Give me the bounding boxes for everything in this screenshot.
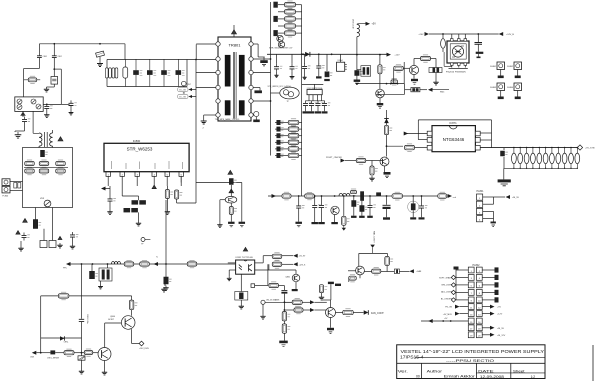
wire	[456, 276, 468, 278]
wire	[387, 145, 404, 147]
label BC817	[108, 319, 114, 321]
connector arrow	[272, 194, 277, 198]
svg-text:PL802: PL802	[473, 264, 481, 267]
wire	[91, 264, 93, 271]
capacitor C834	[325, 72, 333, 77]
wire	[124, 44, 126, 60]
wire	[253, 87, 260, 89]
wire	[376, 93, 405, 95]
transistor Q803	[277, 35, 283, 41]
title section	[446, 358, 494, 363]
resistor R888	[562, 147, 567, 169]
diode D811	[305, 52, 310, 57]
wire	[480, 139, 491, 141]
resistor R807	[56, 168, 66, 175]
svg-text:Sheet: Sheet	[513, 369, 525, 373]
resistor R835	[288, 152, 299, 160]
ground	[97, 61, 103, 67]
resistor R861	[140, 260, 150, 267]
net stub GN	[178, 94, 192, 98]
wire	[196, 87, 216, 89]
wire	[40, 296, 42, 353]
wire	[121, 176, 123, 186]
capacitor C835	[277, 153, 284, 157]
resistor R876	[294, 306, 303, 313]
IC800 pin 3	[135, 172, 139, 176]
wire	[241, 183, 243, 222]
spark gap SG803	[490, 83, 504, 91]
capacitor C855 polarized	[383, 196, 391, 217]
label PL802	[473, 264, 481, 267]
connector arrow	[293, 262, 298, 266]
ground	[383, 217, 390, 219]
svg-text:BC817: BC817	[108, 319, 114, 321]
label BRI_LIGHT	[442, 285, 453, 287]
node	[318, 53, 320, 55]
wire	[276, 72, 278, 74]
capacitor C815	[133, 59, 142, 87]
node	[343, 195, 345, 197]
node	[81, 263, 83, 265]
wire	[100, 281, 102, 285]
resistor R842	[411, 88, 420, 92]
svg-text:CRKL: CRKL	[64, 342, 69, 344]
wire	[379, 74, 381, 90]
resistor R877	[319, 285, 327, 293]
PL801 pin 3	[477, 208, 483, 214]
wire	[262, 304, 264, 314]
wire	[283, 333, 285, 340]
wire	[298, 211, 300, 222]
resistor R810	[132, 200, 146, 204]
inductor L802	[339, 193, 350, 196]
label BL_ON/OFF	[441, 299, 453, 301]
wire	[253, 72, 271, 74]
wire	[263, 255, 272, 257]
wire	[255, 285, 269, 287]
wire	[258, 56, 265, 58]
transformer primary winding	[225, 55, 231, 87]
wire	[282, 263, 293, 265]
wire	[321, 196, 323, 203]
resistor R821	[285, 8, 296, 16]
FSQ510 pin	[451, 39, 454, 42]
capacitor C866	[235, 292, 248, 301]
IC803 pin	[321, 95, 323, 101]
wire	[82, 352, 84, 354]
wire	[131, 329, 133, 343]
ground	[57, 243, 62, 248]
capacitor C833	[316, 63, 324, 71]
capacitor C851	[360, 191, 364, 201]
connector arrow	[101, 187, 106, 191]
wire	[371, 161, 373, 167]
svg-text:STR_W6253_STBY_5V: STR_W6253_STBY_5V	[269, 48, 293, 50]
wire	[164, 284, 166, 286]
wire	[61, 103, 69, 105]
wire	[433, 89, 450, 91]
svg-text:L804 10uH: L804 10uH	[352, 19, 354, 29]
svg-text:FSGM300N: FSGM300N	[455, 72, 466, 74]
ground	[274, 74, 278, 78]
svg-text:STR_W6253: STR_W6253	[127, 147, 153, 152]
ground	[262, 64, 266, 66]
wire	[330, 284, 332, 300]
svg-text:R845: R845	[440, 92, 444, 94]
svg-text:IC803 KA78R33GA: IC803 KA78R33GA	[307, 87, 323, 90]
wire	[177, 202, 196, 204]
connector diamond	[451, 298, 455, 302]
wire	[47, 86, 55, 88]
wire	[81, 322, 83, 356]
wire	[41, 352, 51, 354]
wire	[420, 89, 427, 91]
wire	[384, 166, 386, 172]
wire	[228, 262, 236, 264]
resistor R878	[343, 309, 354, 317]
wire	[10, 190, 23, 192]
IC871 pin	[427, 145, 432, 150]
svg-text:12-09-2008: 12-09-2008	[480, 375, 504, 379]
resistor R831	[288, 125, 299, 133]
resistor R881	[518, 147, 523, 169]
wire mid bus	[356, 83, 405, 85]
wire	[343, 196, 345, 216]
connector +5V_STB	[577, 145, 582, 150]
ground	[240, 225, 244, 227]
resistor R864	[272, 261, 282, 269]
wire	[23, 69, 25, 97]
wire	[366, 160, 372, 162]
wire	[480, 132, 491, 134]
wire	[271, 92, 280, 94]
capacitor C864	[79, 319, 84, 321]
wire	[483, 196, 494, 198]
node	[53, 68, 55, 70]
wire	[324, 109, 326, 112]
wire	[318, 54, 320, 63]
diode D872	[384, 119, 389, 124]
node	[107, 263, 109, 265]
diode D851	[394, 269, 399, 274]
wire	[54, 68, 61, 70]
wire	[482, 334, 490, 336]
wire	[357, 23, 366, 26]
warning mark	[16, 231, 20, 235]
wire	[279, 285, 285, 287]
capacitor C817	[161, 59, 170, 87]
ground	[319, 295, 324, 300]
ground	[136, 221, 141, 226]
node	[386, 195, 388, 197]
wire	[55, 352, 64, 354]
IC871 pin	[475, 138, 480, 143]
wire	[105, 322, 122, 324]
ground	[290, 75, 295, 79]
capacitor C854	[368, 203, 376, 211]
diode D861	[50, 350, 55, 354]
connector +5V arrow	[366, 22, 377, 26]
wire	[504, 167, 578, 169]
label PS_ON	[445, 307, 452, 309]
wire	[253, 100, 271, 102]
wire	[315, 309, 327, 311]
wire	[353, 312, 363, 314]
transformer pin	[216, 113, 220, 117]
capacitor C818	[176, 59, 185, 87]
label +M_5V	[497, 328, 505, 330]
ground	[495, 267, 499, 272]
connector arrow	[293, 254, 298, 258]
wire	[229, 269, 235, 271]
wire	[302, 83, 324, 85]
wire	[482, 276, 494, 278]
label FAN_CONT	[371, 312, 384, 315]
wire	[195, 183, 197, 204]
wire 5VSTB bus	[480, 147, 578, 149]
PL802 pin R1	[476, 267, 482, 273]
resistor R802	[25, 160, 35, 167]
capacitor C812	[123, 59, 128, 87]
wire	[52, 208, 54, 241]
node	[386, 145, 388, 147]
wire HV- rail	[107, 86, 187, 88]
wire antenna	[233, 25, 235, 31]
FSQ510 pin	[464, 63, 467, 66]
connector arrow	[310, 308, 315, 312]
svg-text:SG801: SG801	[490, 66, 496, 68]
wire	[230, 215, 232, 222]
diode D801	[17, 99, 22, 104]
wire	[166, 176, 168, 186]
label Sheet	[513, 369, 525, 373]
svg-text:+5V: +5V	[372, 23, 377, 26]
wire	[138, 196, 140, 200]
node	[92, 263, 94, 265]
capacitor C843 polarized	[476, 52, 484, 58]
label +5V_STB	[585, 148, 595, 150]
resistor R811	[165, 190, 173, 199]
wire	[166, 186, 168, 190]
IC871 pin	[475, 131, 480, 136]
label +5V_MCU	[443, 314, 453, 316]
svg-text:IC831 TLP721GB: IC831 TLP721GB	[235, 257, 253, 259]
wire	[180, 176, 182, 182]
wire	[357, 69, 361, 71]
ground	[385, 176, 389, 178]
wire page border	[592, 345, 594, 381]
optocoupler IC831 body	[236, 260, 255, 274]
label	[139, 348, 149, 350]
resistor R850	[282, 192, 291, 200]
diode D804	[36, 104, 41, 109]
wire	[464, 34, 466, 39]
wire	[104, 188, 111, 190]
ground PL802 top	[454, 267, 459, 270]
resistor R854	[342, 216, 350, 225]
ground	[98, 285, 103, 289]
wire	[255, 262, 264, 264]
ground	[329, 332, 333, 334]
wire	[107, 176, 109, 186]
resistor R813	[124, 208, 138, 212]
PL802 pin R7	[476, 311, 482, 317]
PL802 pin R4	[476, 290, 482, 296]
node	[302, 53, 304, 55]
label KA78R33	[307, 87, 323, 90]
svg-text:PL801: PL801	[477, 190, 485, 193]
wire	[275, 148, 288, 150]
capacitor C838	[274, 64, 282, 72]
svg-text:+24V_B: +24V_B	[506, 34, 514, 36]
wire	[494, 196, 506, 198]
ground	[498, 76, 504, 79]
wire	[455, 270, 457, 300]
wire	[283, 321, 285, 324]
label POWT_ON/OFF	[326, 157, 343, 159]
capacitor C871	[501, 151, 508, 156]
connector arrow	[455, 312, 460, 316]
transformer TR801 body	[218, 37, 251, 121]
op-amp U FSQ510 body	[447, 41, 469, 63]
wire	[299, 128, 302, 130]
resistor R851	[305, 192, 315, 199]
wire	[53, 84, 55, 87]
wire	[230, 185, 232, 196]
node	[195, 59, 197, 61]
label STR_W6253	[127, 147, 153, 152]
IC871 pin	[427, 138, 432, 143]
ground	[15, 132, 22, 138]
wire	[456, 299, 468, 301]
ground	[328, 282, 334, 284]
transformer pin	[216, 85, 220, 89]
svg-text:+5V_ST: +5V_ST	[299, 256, 307, 258]
label +M_12V	[497, 335, 506, 337]
wire	[493, 197, 495, 204]
wire	[418, 119, 491, 121]
wire	[20, 241, 22, 246]
ground	[107, 210, 112, 215]
connector +12V out arrow	[448, 194, 453, 198]
resistor R879	[269, 282, 279, 289]
wire	[369, 196, 371, 203]
capacitor C803	[52, 54, 62, 60]
node	[356, 54, 358, 56]
ground	[201, 119, 207, 125]
wire	[296, 25, 302, 27]
connector AC N	[2, 186, 10, 193]
PL802 pin R5	[476, 297, 482, 303]
PL802 pin R10	[476, 332, 482, 338]
wire AC top bus	[39, 43, 125, 45]
svg-text:Q831: Q831	[285, 277, 290, 279]
wire	[482, 299, 494, 301]
wire	[442, 48, 444, 52]
ground	[181, 88, 186, 93]
connector JP861	[251, 284, 255, 288]
wire	[106, 60, 108, 87]
capacitor C833	[277, 140, 284, 144]
label CRKL_SENSE	[47, 358, 60, 360]
label STR_W6253_VCC_LATCH	[268, 85, 292, 88]
connector inline arrow	[154, 262, 159, 266]
wire	[358, 253, 360, 266]
svg-text:IC871: IC871	[449, 121, 457, 125]
svg-text:ADJ_LIGHT: ADJ_LIGHT	[441, 290, 453, 293]
capacitor C857	[419, 203, 427, 211]
resistor R830	[288, 119, 299, 127]
resistor R822	[285, 15, 296, 23]
resistor R855	[385, 256, 393, 265]
IC800 pin 1	[106, 172, 110, 176]
wire	[315, 301, 327, 303]
connector diamond	[451, 283, 455, 287]
resistor R857	[349, 275, 357, 282]
wire	[192, 96, 196, 98]
capacitor C804	[51, 77, 58, 85]
capacitor C820	[108, 196, 116, 204]
wire	[451, 34, 453, 39]
label Ver	[398, 369, 408, 373]
IC803 pin	[312, 95, 314, 101]
transformer aux winding right	[239, 100, 245, 115]
ground	[228, 222, 235, 224]
wire	[219, 200, 221, 223]
capacitor	[309, 101, 317, 109]
wire	[257, 44, 259, 57]
wire	[275, 122, 288, 124]
node	[298, 195, 300, 197]
connector arrow	[490, 326, 495, 330]
transistor Q864	[326, 308, 336, 318]
wire	[253, 58, 271, 60]
resistor R883	[531, 147, 536, 169]
bridge rectifier BR801	[15, 97, 43, 112]
wire	[240, 274, 242, 291]
svg-text:CN8: CN8	[30, 357, 34, 359]
ground	[44, 87, 49, 92]
connector POWT	[341, 159, 346, 163]
IC800 pin name labels	[112, 161, 183, 169]
wire	[399, 271, 409, 273]
svg-text:PS_ON: PS_ON	[445, 307, 452, 309]
IC800 pin 5	[165, 172, 169, 176]
wire	[386, 110, 388, 157]
wire	[284, 309, 294, 311]
resistor R832	[288, 132, 299, 140]
wire	[275, 141, 288, 143]
warning mark	[228, 170, 233, 174]
node	[40, 352, 42, 354]
ground	[227, 276, 232, 280]
resistor R869	[282, 312, 290, 321]
wire	[138, 212, 140, 221]
wire	[305, 109, 307, 112]
wire	[299, 122, 302, 124]
wire	[303, 309, 310, 311]
ground	[378, 107, 382, 109]
wire	[359, 275, 361, 278]
diode D803	[31, 99, 36, 104]
ground	[69, 111, 74, 115]
label FSQ510	[446, 72, 455, 74]
wire	[203, 115, 205, 119]
wire	[482, 327, 490, 329]
wire	[122, 195, 138, 197]
PL802 pin L9	[468, 325, 474, 331]
capacitor C837	[361, 66, 371, 77]
